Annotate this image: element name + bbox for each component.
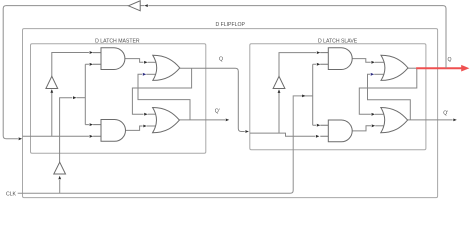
inverter U9 slave D — [273, 76, 285, 88]
arrow slave D into AND U7 lower input — [316, 135, 320, 138]
OR gate U5 master top — [153, 55, 180, 80]
svg-text:D LATCH SLAVE: D LATCH SLAVE — [318, 39, 358, 45]
arrow slave enable into AND U8 — [317, 63, 321, 66]
arrow into master D inverter U3 — [50, 89, 53, 93]
wire feedback D input line (master) — [23, 135, 89, 137]
OR gate U6 master bottom — [153, 108, 180, 133]
wire red Q output — [416, 67, 461, 69]
svg-text:Q: Q — [448, 57, 452, 63]
svg-text:D LATCH MASTER: D LATCH MASTER — [95, 39, 140, 45]
OR gate U10 slave top — [381, 55, 408, 80]
D flip-flop container box — [23, 29, 438, 198]
wire stub OR U5 bottom input — [146, 73, 156, 75]
inverter U4 top feedback (pointing left) — [128, 1, 140, 11]
arrow slave enable into AND U7 — [317, 124, 321, 127]
arrow into master CLK inverter — [58, 176, 61, 180]
wire slave Q feedback to OR U11 top input — [359, 68, 417, 114]
arrow into OR U5 top input — [144, 61, 148, 64]
wire stub OR U11 top input — [375, 113, 384, 115]
arrow slave enable into vertical — [302, 95, 306, 98]
arrow slave inverted D into AND U8 — [317, 51, 321, 54]
svg-text:Q': Q' — [443, 110, 448, 116]
AND gate U2 master bottom — [93, 125, 101, 137]
arrow master enable into vertical — [73, 96, 77, 99]
wire slave D input line — [250, 133, 315, 136]
arrow into top inverter U4 — [144, 4, 148, 7]
wire stub OR U5 top input — [148, 61, 157, 63]
wire stub top inverter input — [140, 5, 144, 7]
wire master D tap to inverter U3 — [51, 90, 53, 136]
arrow master Q' dangling — [226, 119, 230, 122]
wire CLK input to slave enable riser — [18, 96, 305, 193]
wire AND U1 output to OR U5 — [125, 59, 143, 63]
wire slave enable vertical distribution — [313, 64, 316, 125]
wire master Q output to slave D — [180, 68, 245, 131]
AND gate U1 master top — [93, 53, 101, 65]
wire stub OR U10 top input — [375, 61, 385, 63]
wire master Q feedback to OR U6 top input — [132, 68, 191, 114]
arrow master enable into AND U1 — [90, 63, 94, 66]
inverter U3 master D — [46, 76, 58, 88]
arrow red Q output — [461, 65, 469, 72]
D latch master container box — [31, 44, 206, 154]
svg-text:Q: Q — [219, 57, 223, 63]
wire AND U8 output to OR U10 — [352, 59, 371, 63]
wire slave Q' output — [407, 119, 452, 121]
wire CLK tap to master inverter — [59, 180, 61, 193]
arrow inverted D into AND U1 — [90, 51, 94, 54]
wire stub OR U10 bottom input — [374, 73, 385, 75]
wire master Q' feedback to OR U5 bottom input — [138, 74, 190, 120]
wire stub OR U6 top input — [148, 113, 157, 115]
svg-text:CLK: CLK — [6, 191, 17, 197]
arrow master enable into AND U2 — [90, 123, 94, 126]
D latch slave container box — [250, 44, 426, 150]
wire master enable vertical distribution — [85, 64, 89, 124]
arrow into OR U6 bottom input — [143, 125, 147, 128]
OR gate U11 slave bottom — [381, 108, 408, 133]
arrow blue slave Q' feedback into OR U10 — [371, 73, 375, 76]
svg-text:Q': Q' — [215, 109, 220, 115]
wire master inverted D to AND U1 top input — [52, 53, 89, 77]
wire slave inverted D to AND U8 top input — [279, 53, 316, 77]
AND gate U7 slave bottom — [320, 125, 328, 136]
wire slave D tap to inverter U9 — [278, 90, 280, 133]
wire master Q' output — [179, 119, 225, 121]
wire slave Q output stub — [408, 67, 416, 69]
wire master enable from inverter — [60, 98, 73, 163]
inverter U12 master CLK — [54, 162, 66, 174]
wire Q return feedback (right and top) — [148, 6, 446, 69]
wire feedback top and left to D input — [3, 6, 128, 139]
wire slave enable elbow continuation — [305, 95, 313, 97]
arrow into slave D inverter U9 — [278, 89, 281, 93]
wire stub OR U11 bottom input — [375, 125, 384, 127]
arrow master Q feedback into OR U6 — [144, 113, 148, 116]
arrow D into AND U2 lower input — [90, 135, 94, 138]
wire stub OR U6 bottom input — [147, 125, 157, 127]
arrow into OR U11 bottom input — [372, 124, 376, 127]
arrow master Q into slave box — [245, 130, 249, 133]
arrow into OR U10 top input — [371, 61, 375, 64]
arrow slave Q feedback into OR U11 — [372, 113, 376, 116]
arrow slave Q' output — [453, 119, 457, 122]
wire AND U7 output to OR U11 — [352, 126, 371, 131]
wire master enable elbow continuation — [77, 97, 86, 99]
wire AND U2 output to OR U6 — [126, 126, 143, 130]
AND gate U8 slave top — [320, 53, 328, 65]
arrow blue master Q' feedback into OR U5 — [143, 73, 147, 76]
arrow feedback into flip-flop box D input — [19, 137, 23, 140]
svg-text:D FLIPFLOP: D FLIPFLOP — [215, 22, 245, 28]
wire slave Q' feedback to OR U10 bottom input — [368, 74, 411, 120]
